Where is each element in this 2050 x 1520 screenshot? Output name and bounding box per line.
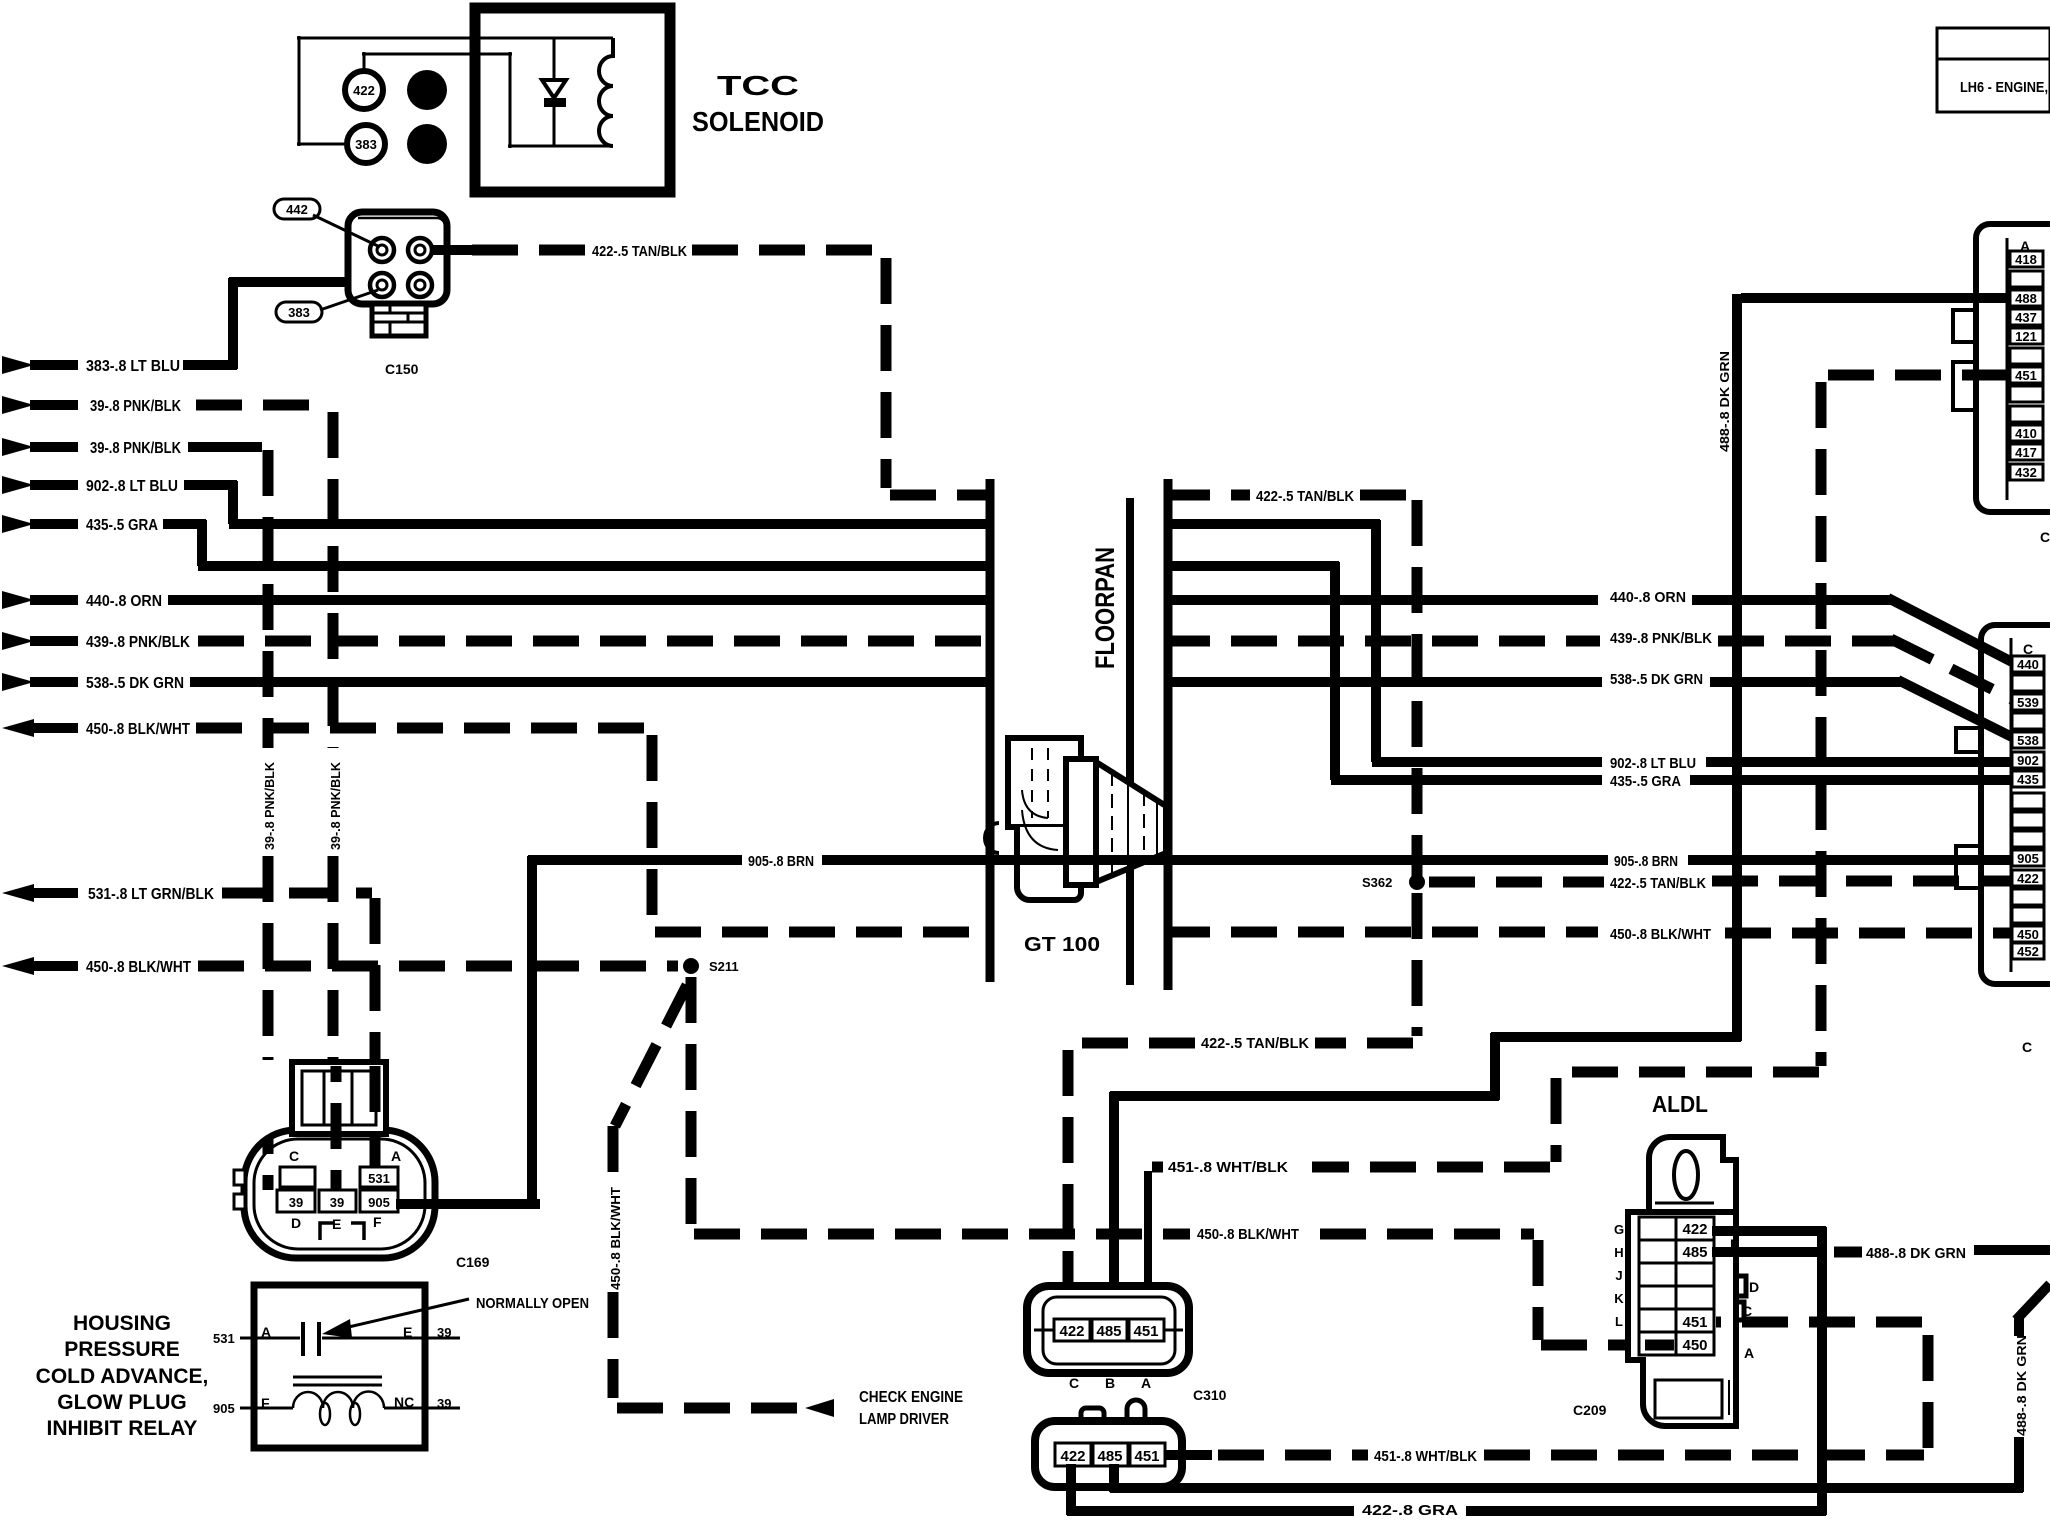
svg-text:GLOW PLUG: GLOW PLUG [57, 1391, 187, 1414]
C169 cell 905 pin F [360, 1190, 398, 1212]
svg-text:488-.8 DK GRN: 488-.8 DK GRN [1717, 351, 1732, 452]
svg-text:39: 39 [437, 1396, 451, 1411]
svg-text:S211: S211 [709, 959, 739, 974]
svg-text:39: 39 [437, 1325, 451, 1340]
wire 39 circuit 1 overlay into C169 [331, 1066, 342, 1190]
svg-text:905: 905 [213, 1401, 235, 1416]
svg-text:451-.8 WHT/BLK: 451-.8 WHT/BLK [1374, 1448, 1477, 1465]
svg-text:531: 531 [213, 1331, 235, 1346]
svg-text:450-.8 BLK/WHT: 450-.8 BLK/WHT [608, 1187, 623, 1290]
wire 440-.8 ORN to ECM pin 440 [168, 598, 2016, 664]
svg-text:451: 451 [1682, 1314, 1707, 1331]
svg-text:451: 451 [1133, 1323, 1158, 1340]
grommet GT 100 collar [1066, 759, 1096, 885]
svg-text:E: E [332, 1216, 341, 1232]
svg-text:PRESSURE: PRESSURE [64, 1338, 180, 1361]
C310 upper cell 422 [1054, 1319, 1090, 1341]
ECM connector C body [1956, 625, 2050, 984]
terminal dot lower [407, 124, 447, 164]
node 439-.8 PNK/BLK input arrow [2, 632, 190, 651]
C150 pin top-right [408, 238, 432, 262]
label NORMALLY OPEN with pointer [322, 1295, 589, 1338]
node 435-.5 GRA input arrow [2, 515, 158, 534]
C169 cell blank [280, 1167, 315, 1187]
svg-text:SOLENOID: SOLENOID [692, 106, 824, 137]
wire 905-.8 BRN overlay through grommet [1000, 855, 1172, 865]
terminal circle 383 [347, 125, 385, 163]
C209 pin letters G H J K L [1614, 1222, 1624, 1329]
label HOUSING PRESSURE COLD ADVANCE GLOW PLUG INHIBIT RELAY [36, 1312, 209, 1440]
floorpan line left [986, 479, 995, 982]
floorpan line middle [1126, 498, 1134, 985]
connector C310 lower body [1035, 1400, 1182, 1487]
relay contact normally open [240, 1322, 460, 1356]
svg-text:905: 905 [2017, 851, 2039, 866]
svg-text:383: 383 [355, 137, 377, 152]
svg-text:39-.8 PNK/BLK: 39-.8 PNK/BLK [90, 398, 181, 415]
svg-text:TCC: TCC [717, 70, 799, 101]
relay coil terminal labels [213, 1394, 451, 1416]
svg-text:450: 450 [1682, 1337, 1707, 1354]
C310 upper cell 485 [1092, 1319, 1127, 1341]
wire 450-.8 BLK/WHT to splice S211 [198, 961, 678, 972]
wire 905 overlay through C169 shell [396, 1199, 540, 1209]
svg-text:437: 437 [2015, 310, 2037, 325]
C150 pin bottom-left [370, 273, 394, 297]
svg-text:422: 422 [1059, 1323, 1084, 1340]
svg-text:432: 432 [2015, 465, 2037, 480]
C209 pin letters F D C A [1730, 1236, 1759, 1361]
svg-text:451-.8 WHT/BLK: 451-.8 WHT/BLK [1168, 1159, 1288, 1176]
connector C169 body [244, 1130, 435, 1258]
svg-text:121: 121 [2015, 329, 2037, 344]
svg-text:H: H [1614, 1245, 1623, 1260]
connector C169 left lugs [234, 1170, 245, 1209]
wire 450-.8 BLK/WHT to ECM pin 450 [196, 728, 2013, 933]
svg-text:422-.8 GRA: 422-.8 GRA [1362, 1502, 1458, 1519]
svg-text:F: F [261, 1395, 270, 1411]
LH6 engine note box [1937, 28, 2050, 112]
connector C209 lower section [1655, 1380, 1729, 1418]
svg-text:422: 422 [1060, 1448, 1085, 1465]
C169 pin letters C A [289, 1148, 401, 1164]
svg-text:ALDL: ALDL [1652, 1091, 1708, 1117]
C169 cell 39 pin D [277, 1190, 315, 1212]
svg-text:39: 39 [330, 1195, 344, 1210]
svg-text:902: 902 [2017, 753, 2039, 768]
svg-text:451: 451 [2015, 368, 2037, 383]
C150 pin top-left [370, 238, 394, 262]
wire 488-.8 DK GRN from ECM pin 488 to C310 [1110, 294, 2013, 1284]
connector C209 ALDL main body [1628, 1212, 1736, 1426]
ECM connector C pins [2012, 656, 2044, 959]
ECM connector A body [1953, 224, 2050, 512]
svg-text:J: J [1615, 1268, 1622, 1283]
svg-text:GT 100: GT 100 [1024, 934, 1100, 956]
relay coil core lines [293, 1377, 382, 1385]
relay contact terminal labels [213, 1324, 451, 1346]
svg-text:450-.8 BLK/WHT: 450-.8 BLK/WHT [86, 721, 190, 738]
C310 upper side stubs [1034, 1329, 1183, 1332]
svg-text:440: 440 [2017, 657, 2039, 672]
C209 pin grid [1639, 1217, 1714, 1355]
svg-text:450: 450 [2017, 927, 2039, 942]
svg-text:451: 451 [1134, 1448, 1159, 1465]
svg-text:538-.5 DK GRN: 538-.5 DK GRN [86, 675, 184, 692]
wire 422-.5 TAN/BLK from C150 to S362 [431, 250, 1417, 880]
svg-text:383: 383 [288, 305, 310, 320]
svg-text:LH6 - ENGINE,: LH6 - ENGINE, [1960, 79, 2048, 96]
grommet GT 100 hatch left [1022, 748, 1058, 850]
svg-text:488-.8 DK GRN: 488-.8 DK GRN [2014, 1335, 2029, 1436]
relay coil [240, 1391, 460, 1425]
wire 422-.5 TAN/BLK from S362 down to C310 [1068, 893, 1417, 1292]
svg-text:S362: S362 [1362, 875, 1392, 890]
svg-text:538-.5 DK GRN: 538-.5 DK GRN [1610, 671, 1703, 688]
C209 right tabs [1736, 1276, 1746, 1320]
wire 39 circuit 2 overlay into C169 [263, 1138, 274, 1190]
svg-text:488: 488 [2015, 291, 2037, 306]
svg-text:39-.8 PNK/BLK: 39-.8 PNK/BLK [90, 440, 181, 457]
svg-text:HOUSING: HOUSING [73, 1312, 171, 1335]
svg-text:905: 905 [368, 1195, 390, 1210]
svg-text:422-.5 TAN/BLK: 422-.5 TAN/BLK [1610, 875, 1706, 892]
svg-text:C209: C209 [1573, 1402, 1607, 1418]
svg-text:435-.5 GRA: 435-.5 GRA [1610, 773, 1681, 790]
svg-text:B: B [1105, 1375, 1115, 1391]
svg-text:LAMP DRIVER: LAMP DRIVER [859, 1411, 949, 1428]
wire 451-.8 WHT/BLK from C310 lower to ALDL pin L [1165, 1322, 1928, 1455]
C169 pin letters D E F [291, 1214, 382, 1240]
label TCC SOLENOID [692, 70, 824, 137]
node 39-.8 PNK/BLK input arrow 1 [2, 396, 181, 415]
connector C169 top tab [292, 1062, 386, 1134]
svg-text:417: 417 [2015, 445, 2037, 460]
C310 lower cell 485 [1093, 1443, 1128, 1466]
C310 upper cell 451 [1129, 1319, 1164, 1341]
wire 435-.5 GRA to ECM pin 435 [163, 520, 2013, 780]
node 538-.5 DK GRN input arrow [2, 673, 184, 692]
svg-text:422: 422 [1682, 1221, 1707, 1238]
wire 531-.8 LT GRN/BLK to C169 pin A [222, 893, 375, 1170]
wire 39 circuit 2 to C169 pin D [188, 447, 268, 1060]
svg-text:39-.8 PNK/BLK: 39-.8 PNK/BLK [262, 761, 277, 850]
C310 pin letters C B A [1069, 1375, 1151, 1391]
svg-text:C: C [2040, 529, 2050, 545]
svg-text:442: 442 [286, 202, 308, 217]
terminal dot upper [407, 70, 447, 110]
svg-text:A: A [261, 1324, 271, 1340]
svg-text:485: 485 [1096, 1323, 1121, 1340]
svg-text:INHIBIT RELAY: INHIBIT RELAY [47, 1417, 198, 1440]
wire 439-.8 PNK/BLK to ECM pin 539 [198, 639, 2016, 701]
relay box [254, 1285, 425, 1448]
C150 pin bottom-right [408, 273, 432, 297]
label 383 callout [276, 290, 378, 322]
wire S211 branch to check engine lamp driver [613, 985, 800, 1408]
wire S211 down to 450 net bottom [691, 977, 1674, 1345]
wire 383 circuit to C150 [183, 278, 374, 369]
TCC solenoid box [475, 8, 670, 192]
grommet GT 100 funnel [1096, 762, 1166, 882]
terminal circle 422 [345, 71, 383, 109]
svg-text:D: D [291, 1215, 301, 1231]
svg-text:410: 410 [2015, 426, 2037, 441]
svg-text:A: A [391, 1148, 401, 1164]
svg-text:NORMALLY OPEN: NORMALLY OPEN [476, 1295, 589, 1312]
svg-text:39: 39 [289, 1195, 303, 1210]
wire 450 overlay into C209 pin 450 [1645, 1340, 1674, 1351]
node 383-.8 LT BLU input arrow [2, 356, 180, 375]
wire 531 overlay into C169 [370, 1066, 381, 1168]
floorpan line right [1164, 479, 1173, 990]
wire 39 circuit 1 to C169 pin E [196, 405, 333, 1060]
coil inside TCC solenoid [599, 38, 613, 146]
node 450-.8 BLK/WHT output arrow 1 [2, 719, 190, 738]
svg-text:D: D [1749, 1279, 1759, 1295]
svg-text:450-.8 BLK/WHT: 450-.8 BLK/WHT [1197, 1226, 1299, 1243]
svg-text:422: 422 [2017, 871, 2039, 886]
node 39-.8 PNK/BLK input arrow 2 [2, 438, 181, 457]
svg-text:435-.5 GRA: 435-.5 GRA [86, 517, 158, 534]
C310 lower cell 422 [1055, 1443, 1091, 1466]
splice S211 [683, 958, 739, 974]
svg-text:E: E [403, 1324, 412, 1340]
wire TCC 383 terminal [297, 36, 613, 146]
label 442 callout [274, 199, 380, 247]
svg-text:435: 435 [2017, 772, 2039, 787]
node 440-.8 ORN input arrow [2, 591, 162, 610]
svg-text:FLOORPAN: FLOORPAN [1090, 547, 1120, 669]
connector C310 upper body [1027, 1286, 1189, 1373]
svg-text:C: C [1069, 1375, 1079, 1391]
svg-text:485: 485 [1097, 1448, 1122, 1465]
wire 905-.8 BRN from C169 to ECM pin 905 [393, 856, 2013, 1208]
svg-text:485: 485 [1682, 1244, 1707, 1261]
node check engine lamp driver arrow [805, 1389, 963, 1428]
svg-text:440-.8 ORN: 440-.8 ORN [86, 593, 162, 610]
wire 538-.5 DK GRN to ECM pin 538 [190, 680, 2016, 739]
C169 cell 39 pin E [319, 1190, 356, 1212]
svg-text:418: 418 [2015, 252, 2037, 267]
wire 902-.8 LT BLU to ECM pin 902 [184, 481, 2013, 762]
splice S362 [1362, 874, 1425, 890]
svg-text:450-.8 BLK/WHT: 450-.8 BLK/WHT [1610, 926, 1711, 943]
svg-text:422-.5 TAN/BLK: 422-.5 TAN/BLK [1201, 1035, 1309, 1052]
svg-text:NC: NC [394, 1394, 414, 1410]
wire TCC 422 terminal [362, 52, 613, 148]
svg-text:A: A [1744, 1345, 1754, 1361]
svg-text:COLD ADVANCE,: COLD ADVANCE, [36, 1365, 209, 1388]
wire 422-.5 TAN/BLK from S362 to ECM pin 422 [1429, 881, 2013, 882]
svg-text:F: F [373, 1214, 382, 1230]
svg-text:383-.8 LT BLU: 383-.8 LT BLU [86, 358, 180, 375]
svg-text:531-.8 LT GRN/BLK: 531-.8 LT GRN/BLK [88, 886, 214, 903]
svg-text:C150: C150 [385, 361, 419, 377]
svg-text:439-.8 PNK/BLK: 439-.8 PNK/BLK [86, 634, 190, 651]
svg-text:C169: C169 [456, 1254, 490, 1270]
svg-text:531: 531 [368, 1171, 390, 1186]
svg-text:440-.8 ORN: 440-.8 ORN [1610, 589, 1686, 606]
svg-text:539: 539 [2017, 695, 2039, 710]
svg-text:39-.8 PNK/BLK: 39-.8 PNK/BLK [328, 761, 343, 850]
svg-text:G: G [1614, 1222, 1624, 1237]
svg-text:422-.5 TAN/BLK: 422-.5 TAN/BLK [592, 243, 687, 260]
wire 451-.8 WHT/BLK from ECM pin 451 to C310 [1148, 375, 2011, 1286]
C310 lower cell 451 [1130, 1443, 1165, 1466]
svg-text:A: A [1141, 1375, 1151, 1391]
node 531-.8 LT GRN/BLK output arrow [2, 884, 214, 903]
wire 422-.8 GRA from C310 lower to ALDL pin F [1067, 1227, 1826, 1515]
svg-text:L: L [1615, 1314, 1623, 1329]
svg-text:C: C [289, 1148, 299, 1164]
svg-text:905-.8 BRN: 905-.8 BRN [1614, 853, 1678, 870]
connector C150 lower tab [372, 304, 426, 336]
svg-text:422: 422 [353, 83, 375, 98]
svg-text:488-.8 DK GRN: 488-.8 DK GRN [1866, 1245, 1966, 1262]
ECM connector A pins [2010, 251, 2043, 480]
svg-text:CHECK ENGINE: CHECK ENGINE [859, 1389, 963, 1406]
svg-text:450-.8 BLK/WHT: 450-.8 BLK/WHT [86, 959, 191, 976]
svg-text:538: 538 [2017, 733, 2039, 748]
svg-text:902-.8 LT BLU: 902-.8 LT BLU [1610, 755, 1696, 772]
svg-text:905-.8 BRN: 905-.8 BRN [748, 853, 814, 870]
C169 cell 531 [360, 1167, 398, 1187]
connector C150 body [348, 212, 447, 304]
svg-text:422-.5 TAN/BLK: 422-.5 TAN/BLK [1256, 488, 1354, 505]
node 450-.8 BLK/WHT output arrow 2 [2, 957, 191, 976]
connector C209 ALDL top section [1649, 1137, 1736, 1212]
svg-text:K: K [1614, 1291, 1624, 1306]
svg-text:C310: C310 [1193, 1387, 1227, 1403]
svg-text:902-.8 LT BLU: 902-.8 LT BLU [86, 478, 178, 495]
grommet GT 100 body [985, 738, 1081, 900]
node 902-.8 LT BLU input arrow [2, 476, 178, 495]
wire 488-.8 DK GRN from ALDL to C310 lower 485 [1110, 1250, 2050, 1492]
svg-text:439-.8 PNK/BLK: 439-.8 PNK/BLK [1610, 630, 1712, 647]
diode inside TCC solenoid [542, 38, 566, 146]
svg-text:452: 452 [2017, 944, 2039, 959]
svg-text:C: C [2022, 1039, 2032, 1055]
